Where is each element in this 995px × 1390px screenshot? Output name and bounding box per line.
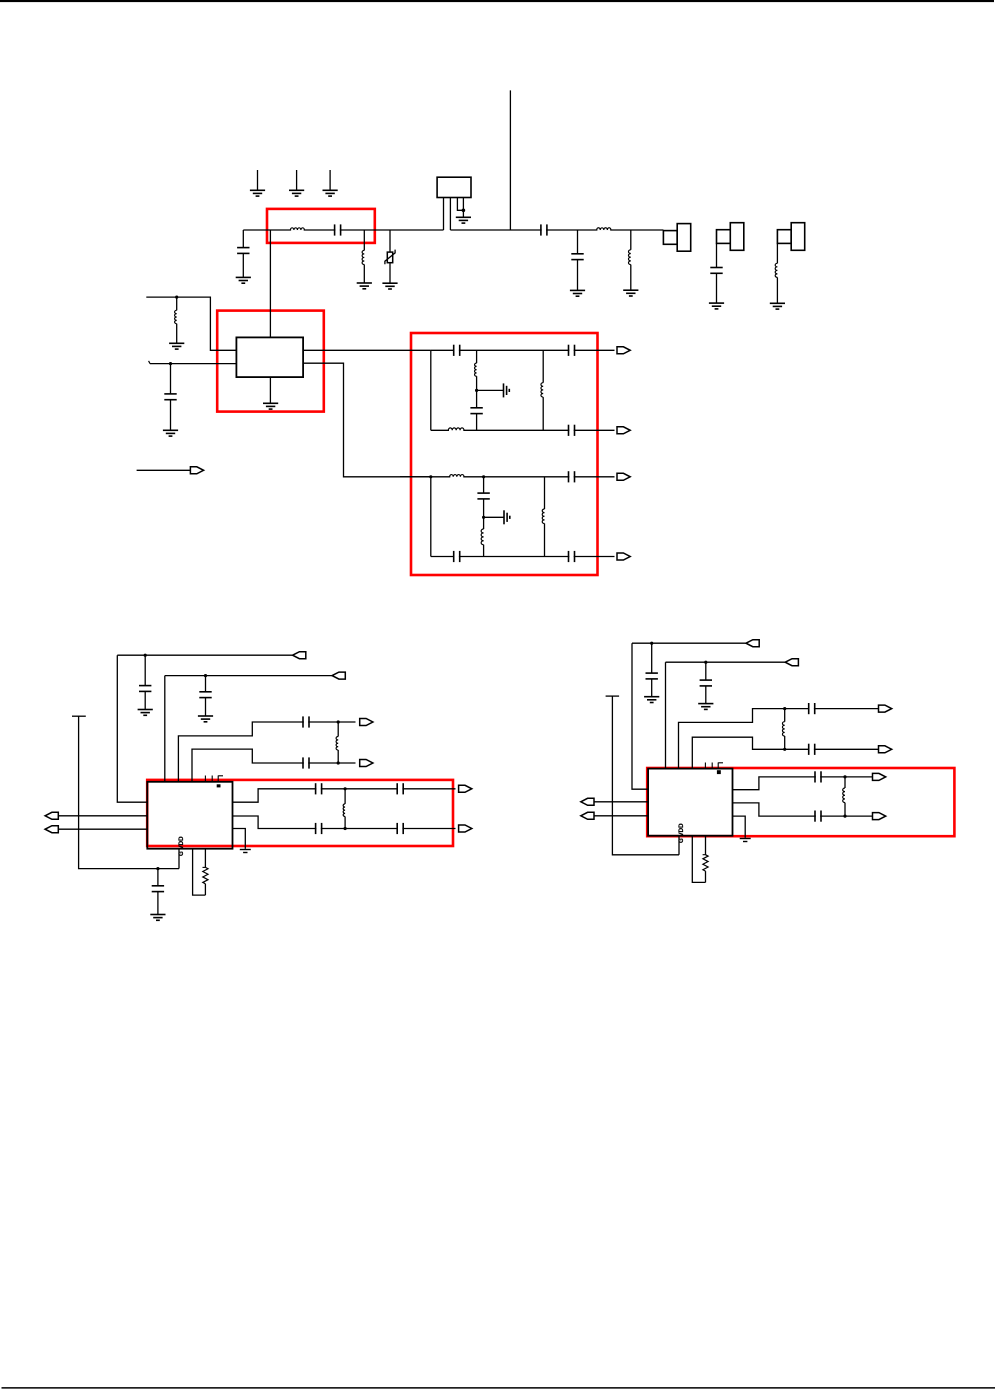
- J4 lead to L5: [776, 243, 778, 263]
- wire to ground tap 1: [477, 389, 504, 391]
- capacitor C1: [237, 248, 249, 254]
- ground under C25: [698, 704, 713, 710]
- port P12 arrow: [879, 746, 892, 753]
- junction dot L16-top: [843, 775, 846, 778]
- wire U2 out1 step: [233, 789, 456, 802]
- wire net1 down to U2: [117, 655, 147, 802]
- port P14 arrow: [581, 812, 594, 819]
- port OUT3: [617, 473, 630, 480]
- junction dot C19: [156, 867, 159, 870]
- highlight box 3 (balun filters): [411, 333, 598, 575]
- capacitor C4 shunt: [577, 230, 579, 254]
- capacitor C10: [483, 477, 485, 493]
- capacitor C13: [569, 550, 573, 563]
- J1 stub to ground: [462, 210, 464, 217]
- wire main RF line right segment: [450, 229, 663, 231]
- capacitor C20: [316, 782, 320, 795]
- wire U1 pin2 feed: [150, 363, 237, 365]
- wire net8 stepped: [692, 737, 878, 768]
- junction dot L13-top: [337, 720, 340, 723]
- junction dot C6: [169, 362, 172, 365]
- ground (rotated) balun2: [504, 510, 510, 524]
- wire P14 to U3: [594, 815, 648, 817]
- highlight box 4 (LNA out): [147, 780, 453, 846]
- inductor L5: [775, 263, 777, 277]
- wire net5 top: [632, 642, 746, 644]
- ground stub G2: [296, 170, 298, 190]
- port OUT2: [617, 427, 630, 434]
- junction dot L15-top: [783, 707, 786, 710]
- inductor L8 shunt: [542, 350, 544, 382]
- capacitor C12: [569, 470, 573, 483]
- wire net7 stepped: [679, 709, 879, 769]
- port P9 arrow: [746, 640, 759, 647]
- capacitor C3: [542, 223, 546, 236]
- port P1 arrow: [293, 652, 306, 659]
- inductor L3: [597, 229, 610, 231]
- ground under C4: [570, 290, 585, 296]
- IC U2: [147, 782, 232, 849]
- page bottom rule: [2, 1387, 995, 1389]
- capacitor C7: [455, 344, 459, 357]
- wire net5 down to U3: [632, 643, 648, 789]
- capacitor C24: [651, 643, 653, 673]
- capacitor C6 shunt: [170, 364, 172, 394]
- ground under L6: [169, 343, 184, 349]
- wire RX input: [137, 469, 191, 471]
- antenna ANT1 vertical lead: [509, 90, 511, 230]
- wire net1 top: [117, 654, 292, 656]
- highlight box 1 (matching network): [267, 209, 375, 243]
- J3 lead to C5: [716, 243, 718, 267]
- capacitor C27: [810, 743, 814, 756]
- inductor L14: [344, 789, 346, 804]
- junction dot balun2-a: [429, 475, 432, 478]
- U2 pin1 marker: [217, 784, 221, 787]
- junction dot balun2-c: [482, 516, 485, 519]
- inductor L7: [476, 350, 478, 363]
- wire to ground tap 2: [484, 516, 504, 518]
- ground under L5: [770, 303, 785, 309]
- port P16 arrow: [873, 813, 886, 820]
- ground under C24: [644, 697, 659, 703]
- wire P6 to U2: [58, 828, 147, 830]
- ground small U3: [740, 839, 751, 842]
- wire net3 stepped: [178, 722, 355, 782]
- VCC rail tick U3: [606, 695, 620, 697]
- port P6 arrow: [45, 826, 58, 833]
- ground (rotated) balun1: [504, 383, 510, 397]
- connector J3: [717, 223, 744, 251]
- ground under U1: [263, 403, 278, 409]
- U2 gnd stub right: [233, 829, 246, 849]
- ground under C1: [236, 277, 251, 283]
- port P13 arrow: [581, 798, 594, 805]
- inductor L12 shunt: [544, 477, 546, 509]
- J1 pin lead 1: [443, 198, 445, 231]
- capacitor C2: [335, 223, 339, 236]
- ground small U2: [240, 850, 251, 853]
- capacitor C18: [304, 756, 308, 769]
- port P10 arrow: [785, 659, 798, 666]
- L5 to ground: [776, 277, 778, 303]
- ground under C16: [198, 716, 213, 722]
- wire C1 to ground: [242, 253, 244, 277]
- junction dot L13-bot: [337, 761, 340, 764]
- port P4 arrow: [360, 760, 373, 767]
- inductor L9: [449, 429, 463, 431]
- capacitor C17: [304, 715, 308, 728]
- capacitor C11: [455, 550, 459, 563]
- IC U1: [236, 337, 303, 377]
- wire net6: [666, 661, 786, 663]
- wire U1 out1: [303, 349, 431, 351]
- port P3 arrow: [360, 719, 373, 726]
- wire net2 down to U2: [164, 676, 166, 782]
- port OUT1: [617, 347, 630, 354]
- VCC rail vertical U2: [79, 716, 179, 868]
- capacitor C9: [476, 390, 478, 407]
- ground under C5: [709, 303, 724, 309]
- inductor L4 shunt: [630, 230, 632, 250]
- ground stub G1: [257, 170, 259, 190]
- wire U3 out1 step: [733, 777, 873, 790]
- U3 gnd stub right: [733, 816, 746, 838]
- inductor L2 shunt: [363, 230, 365, 250]
- ground under L2: [357, 283, 372, 289]
- port OUT4: [617, 553, 630, 560]
- port P8 arrow: [459, 825, 472, 832]
- inductor L6 shunt: [176, 297, 178, 310]
- balun2 bottom rail: [431, 556, 615, 558]
- U1 ground pin: [269, 377, 271, 403]
- capacitor C8: [569, 344, 573, 357]
- port P5 arrow: [45, 812, 58, 819]
- resistor R1 loop: [193, 849, 206, 895]
- capacitor C22: [316, 822, 320, 835]
- U3 gnd pin wire: [678, 836, 680, 855]
- ground under L4: [623, 290, 638, 296]
- ground under C6: [163, 430, 178, 436]
- capacitor C21: [398, 782, 402, 795]
- wire net6 down to U3: [665, 662, 667, 768]
- port P15 arrow: [873, 773, 886, 780]
- port P7 arrow: [459, 785, 472, 792]
- balun1 left vertical: [430, 350, 432, 430]
- resistor R2: [703, 855, 708, 871]
- page top border bar: [0, 0, 994, 2]
- wire U3 out2 step: [733, 803, 873, 816]
- junction dot L15-bot: [783, 748, 786, 751]
- wire corner to shunt cap C1: [242, 230, 244, 248]
- balun2 input rail: [400, 476, 615, 478]
- inductor L13: [337, 722, 339, 737]
- ground under C19: [150, 915, 165, 921]
- junction dot L6: [175, 296, 178, 299]
- VCC rail vertical U3: [612, 696, 679, 855]
- highlight box 2 (switch): [217, 311, 324, 412]
- inductor L16: [844, 777, 846, 788]
- wire main RF line left segment: [243, 229, 443, 231]
- junction dot C16: [204, 674, 207, 677]
- wire VCC feed: [146, 297, 236, 350]
- U3 pin stubs: [704, 763, 706, 769]
- junction dot C15: [144, 654, 147, 657]
- capacitor C14: [569, 424, 573, 437]
- port P2 arrow: [332, 672, 345, 679]
- wire net4 stepped: [192, 749, 356, 782]
- inductor L10: [450, 476, 463, 478]
- varistor RV1: [389, 230, 391, 252]
- junction dot C25: [704, 661, 707, 664]
- capacitor C23: [398, 822, 402, 835]
- capacitor C29: [816, 810, 820, 823]
- junction dot balun1: [475, 389, 478, 392]
- resistor R1: [203, 867, 208, 883]
- capacitor C16: [205, 676, 207, 692]
- connector J4: [777, 223, 804, 251]
- VCC rail tick U2: [72, 715, 86, 717]
- IC U3: [648, 769, 732, 836]
- connector J2: [663, 224, 690, 252]
- capacitor C25: [705, 662, 707, 680]
- junction dot L14-top: [344, 787, 347, 790]
- ground stub G3: [329, 170, 331, 190]
- C5 to ground: [716, 273, 718, 303]
- junction dot L14-bot: [344, 827, 347, 830]
- inductor L11: [483, 517, 485, 529]
- capacitor C19: [157, 869, 159, 886]
- capacitor C28: [816, 770, 820, 783]
- connector J1 (test): [437, 177, 471, 197]
- ground under RV1: [382, 283, 397, 289]
- U2 gnd pin wire: [178, 849, 180, 869]
- port P11 arrow: [879, 705, 892, 712]
- wire net2: [165, 675, 332, 677]
- capacitor C15: [144, 655, 146, 685]
- J1 pin lead 2: [449, 198, 451, 231]
- balun1 bottom rail: [431, 429, 615, 431]
- junction dot L16-bot: [843, 815, 846, 818]
- wire U1 out2: [303, 363, 431, 477]
- capacitor C5: [710, 268, 722, 274]
- ground under C15: [138, 710, 153, 716]
- U2 pin stubs: [204, 776, 206, 782]
- balun1 top rail: [431, 349, 615, 351]
- balun2 left vertical: [430, 477, 432, 557]
- junction dot C24: [650, 642, 653, 645]
- node branch to U1: [269, 230, 271, 337]
- junction dot balun2-b: [482, 475, 485, 478]
- inductor L15: [784, 709, 786, 722]
- inductor L1: [291, 229, 304, 231]
- J1 junction dot: [462, 209, 466, 213]
- capacitor C26: [810, 702, 814, 715]
- J1 pin stub 4: [462, 198, 464, 211]
- resistor R2 loop: [692, 836, 705, 883]
- ground under J1: [456, 217, 471, 223]
- J1 pin stub 3: [457, 198, 463, 211]
- highlight box 5 (LNA out): [647, 768, 954, 836]
- port RX arrow: [190, 467, 203, 474]
- U3 pin1 marker: [717, 770, 721, 774]
- wire P13 to U3: [594, 801, 648, 803]
- wire U2 out2 step: [233, 816, 456, 829]
- wire P5 to U2: [58, 815, 147, 817]
